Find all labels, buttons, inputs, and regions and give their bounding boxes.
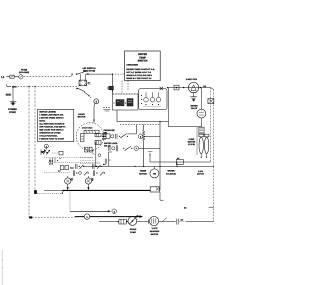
node L1	[1, 76, 4, 79]
svg-text:WARM A-R COLD B-R SW-1: WARM A-R COLD B-R SW-1	[126, 74, 152, 76]
wire bottom comp line	[99, 221, 119, 223]
label 2-way	[186, 78, 197, 80]
wire right pair	[211, 88, 214, 167]
svg-text:CLK: CLK	[70, 167, 74, 169]
svg-text:BK: BK	[71, 178, 74, 180]
svg-text:SOLENOID: SOLENOID	[166, 173, 176, 175]
svg-text:MOTOR: MOTOR	[197, 173, 204, 175]
svg-text:GND: GND	[6, 93, 12, 96]
svg-text:HOT A-Y WARM A-R+Y C-2: HOT A-Y WARM A-R+Y C-2	[126, 71, 151, 73]
motor switch box	[139, 89, 167, 110]
svg-text:CORD: CORD	[9, 111, 16, 114]
svg-text:OFF POSITION, TUB EMPTY.: OFF POSITION, TUB EMPTY.	[39, 126, 65, 128]
svg-text:MOTOR: MOTOR	[151, 233, 159, 235]
wire dashed to lid switch	[24, 74, 74, 76]
svg-text:RINSE B-Y SEE CHART 2-4: RINSE B-Y SEE CHART 2-4	[126, 77, 151, 79]
junction	[183, 87, 184, 88]
timer contact cluster	[41, 148, 50, 155]
svg-text:START WDG: START WDG	[82, 127, 93, 129]
water temp rows	[126, 64, 154, 79]
svg-text:2-WAY OPN: 2-WAY OPN	[186, 78, 197, 80]
svg-text:PUMP: PUMP	[189, 138, 195, 140]
wire	[168, 126, 201, 128]
timer motor	[150, 166, 159, 178]
svg-text:2 MOTOR SPEED SWITCH: 2 MOTOR SPEED SWITCH	[39, 117, 63, 119]
svg-text:GY-5: GY-5	[49, 163, 53, 165]
wire dashed	[179, 221, 213, 223]
wire	[200, 118, 202, 127]
wire dotted	[48, 162, 100, 164]
drain pump label	[130, 228, 136, 233]
comb ticks	[50, 158, 61, 163]
pressure switch label	[104, 129, 115, 134]
svg-text:RUN: RUN	[102, 138, 106, 140]
tap wires	[80, 154, 110, 164]
connector plug	[118, 219, 128, 224]
svg-text:SW. (2): SW. (2)	[104, 145, 111, 147]
terminal box	[174, 85, 179, 90]
pump winding 1	[199, 137, 203, 153]
svg-text:2 SPD: 2 SPD	[152, 228, 158, 230]
svg-text:VALVE: VALVE	[191, 107, 197, 109]
junction	[28, 86, 35, 87]
coil	[199, 127, 204, 134]
svg-text:PRESSURE: PRESSURE	[104, 129, 115, 131]
motor start wdg	[82, 127, 93, 129]
wire	[196, 127, 198, 155]
label GRN	[12, 86, 16, 88]
svg-text:(HOLDER): (HOLDER)	[19, 72, 29, 74]
svg-text:1: 1	[86, 216, 87, 219]
wire	[167, 88, 169, 127]
wire	[109, 152, 113, 166]
label BU	[88, 82, 92, 85]
wire	[193, 93, 195, 97]
label BK right	[184, 207, 214, 209]
junction	[200, 87, 201, 88]
wire dotted	[52, 151, 63, 155]
pump label	[188, 138, 196, 145]
svg-text:TIMER: TIMER	[140, 170, 146, 172]
svg-text:MOTOR: MOTOR	[139, 173, 147, 175]
svg-text:OPERATION IN OTHER: OPERATION IN OTHER	[39, 132, 60, 134]
svg-text:GRN: GRN	[12, 86, 16, 88]
svg-text:DRIVE: DRIVE	[78, 113, 84, 115]
node 5 circled	[94, 99, 99, 104]
svg-text:TEMP: TEMP	[139, 56, 146, 59]
wire motor feed	[93, 104, 95, 123]
svg-text:MOTOR: MOTOR	[188, 141, 196, 143]
lid switch label	[83, 67, 96, 72]
wire gnd drop	[12, 86, 14, 101]
svg-text:BEHIND TIMER CONTACT A-B: BEHIND TIMER CONTACT A-B	[126, 68, 154, 70]
svg-text:2-3: 2-3	[58, 170, 61, 172]
water level switch	[109, 145, 139, 151]
timer contacts	[113, 99, 133, 106]
wash motor label	[150, 228, 160, 236]
wire	[200, 133, 202, 135]
water valve label	[190, 105, 197, 110]
svg-text:NOTE:: NOTE:	[39, 120, 45, 122]
svg-text:BK: BK	[177, 157, 180, 159]
wire	[159, 217, 176, 221]
svg-text:WATER: WATER	[167, 170, 174, 172]
end box BK	[150, 187, 159, 192]
svg-text:SWITCH: SWITCH	[138, 60, 148, 63]
wire	[167, 87, 211, 88]
wire	[44, 189, 62, 191]
motor left coil	[81, 133, 84, 141]
wire to 2	[70, 210, 111, 212]
wire	[139, 147, 160, 149]
svg-text:LID SWITCH: LID SWITCH	[83, 67, 96, 69]
svg-text:BU: BU	[88, 82, 91, 84]
motor switch contacts	[141, 92, 162, 106]
notes box	[38, 109, 74, 141]
svg-text:BK: BK	[203, 85, 206, 87]
motor main wdg label	[102, 133, 107, 140]
wire	[126, 221, 128, 223]
svg-text:2: 2	[114, 211, 115, 213]
timer motor label	[139, 170, 147, 175]
svg-text:DRAIN: DRAIN	[130, 228, 136, 230]
wire	[160, 122, 164, 201]
bus thick	[62, 189, 150, 191]
label BK	[203, 85, 206, 87]
cap	[177, 219, 184, 225]
svg-text:1: 1	[46, 145, 47, 148]
svg-text:P MEANS PUSH TO START: P MEANS PUSH TO START	[39, 138, 64, 140]
wire dashed GRN	[18, 85, 79, 87]
wire	[148, 152, 153, 163]
row comps	[60, 164, 105, 170]
drive motor circle	[76, 123, 104, 151]
wire	[213, 166, 215, 221]
ground	[190, 97, 196, 102]
motor lower contacts	[85, 147, 95, 154]
pump winding 2	[204, 137, 208, 153]
svg-text:SEE CHART FOR SWITCH: SEE CHART FOR SWITCH	[39, 129, 63, 131]
pump caps	[199, 134, 209, 137]
water level label	[104, 142, 118, 147]
ground	[10, 102, 17, 106]
motor M1	[85, 176, 93, 190]
label POWER CORD	[8, 108, 17, 113]
wire dashed vertical left B	[34, 86, 36, 193]
water temp switch box	[125, 51, 161, 81]
wire dashed bottom feeder A	[29, 216, 76, 218]
svg-text:(SEE NOTE): (SEE NOTE)	[83, 70, 95, 72]
svg-text:BU: BU	[103, 164, 105, 166]
wire	[116, 110, 118, 122]
svg-text:UNMARKED: UNMARKED	[126, 64, 138, 66]
bus bottom thick	[76, 215, 143, 218]
wire	[15, 76, 19, 78]
wire dashed vertical left A	[28, 86, 30, 217]
node 1 circled b	[84, 214, 89, 219]
svg-text:MOTOR: MOTOR	[78, 116, 86, 118]
svg-text:2: 2	[140, 136, 141, 138]
svg-text:ALL SWITCHES SHOWN IN: ALL SWITCHES SHOWN IN	[39, 123, 64, 125]
svg-text:WASHING: WASHING	[150, 230, 160, 232]
drain pump motor	[128, 215, 139, 225]
solenoid	[197, 109, 206, 118]
timer block dashed box	[112, 94, 138, 110]
resistor heater	[142, 125, 145, 167]
svg-text:POWER: POWER	[8, 108, 17, 111]
lid switch lower contact	[76, 88, 91, 98]
svg-text:WATER LEVEL: WATER LEVEL	[104, 142, 118, 144]
svg-text:BK: BK	[184, 207, 187, 209]
svg-text:FUSE: FUSE	[21, 69, 27, 71]
svg-text:TM: TM	[153, 173, 156, 175]
motor M5	[65, 176, 74, 190]
svg-text:MAIN: MAIN	[102, 133, 107, 135]
svg-text:BK: BK	[181, 219, 184, 221]
wire dotted drop	[69, 190, 71, 211]
label GND	[6, 93, 12, 96]
svg-text:WATER: WATER	[190, 105, 197, 107]
valve V1	[188, 82, 198, 92]
timer terminals	[103, 107, 110, 111]
wire	[137, 219, 149, 224]
node 1 circled	[44, 144, 48, 148]
svg-text:CYCLE POSITIONS.: CYCLE POSITIONS.	[39, 135, 57, 137]
terminal block	[208, 99, 214, 104]
wire dotted	[44, 157, 93, 159]
wire	[143, 135, 160, 137]
svg-text:WDG: WDG	[102, 136, 106, 138]
svg-text:(2 SPD): (2 SPD)	[188, 143, 195, 145]
fuse holder F1	[10, 75, 14, 78]
wire	[201, 154, 208, 158]
node 2 circled	[112, 209, 117, 214]
row comps 2	[73, 170, 105, 176]
wire	[88, 74, 113, 75]
solenoid label	[166, 170, 176, 175]
wire	[112, 74, 113, 94]
svg-text:1 TIMER LINE BREAK SW.: 1 TIMER LINE BREAK SW.	[39, 114, 63, 116]
wire	[95, 142, 97, 166]
wire	[150, 161, 211, 163]
lid switch body	[79, 74, 87, 86]
wire dashed to box	[112, 73, 124, 75]
svg-text:BK-2: BK-2	[49, 160, 53, 162]
svg-text:L1: L1	[1, 76, 4, 79]
thermo box	[176, 157, 183, 164]
drive motor label	[78, 113, 86, 118]
notes text	[39, 111, 65, 140]
motor switch mark BK	[160, 87, 163, 90]
label 2spd	[197, 171, 204, 175]
fuse holder label	[19, 69, 29, 74]
svg-text:BK: BK	[91, 178, 94, 180]
wire long	[84, 166, 214, 167]
terminal tick	[107, 86, 113, 90]
wire dotted	[44, 170, 70, 173]
pressure switch	[103, 125, 137, 139]
wire	[117, 121, 168, 122]
svg-text:5: 5	[96, 101, 97, 104]
fuse F1	[19, 75, 23, 79]
wire dashed	[120, 124, 160, 126]
water temp heading	[138, 53, 148, 62]
wire	[6, 76, 9, 78]
wire dashed temp drop	[122, 81, 128, 94]
scan edge line	[2, 250, 3, 285]
wire	[200, 88, 202, 110]
node 2 circled	[138, 134, 143, 139]
label MW	[41, 151, 45, 153]
lid switch contact	[72, 71, 88, 75]
wire dotted feeder B	[34, 190, 63, 194]
motor inductor	[84, 130, 99, 133]
label bk2	[49, 160, 53, 165]
svg-text:PUMP: PUMP	[130, 231, 136, 233]
wash motor	[149, 216, 158, 225]
wire GRN stub hook	[7, 84, 11, 86]
svg-text:SWITCH LEGEND: SWITCH LEGEND	[39, 111, 56, 113]
svg-text:2 SPD: 2 SPD	[198, 171, 203, 173]
motor right coils	[95, 134, 101, 145]
wire	[176, 162, 178, 166]
svg-text:WATER: WATER	[138, 53, 147, 56]
